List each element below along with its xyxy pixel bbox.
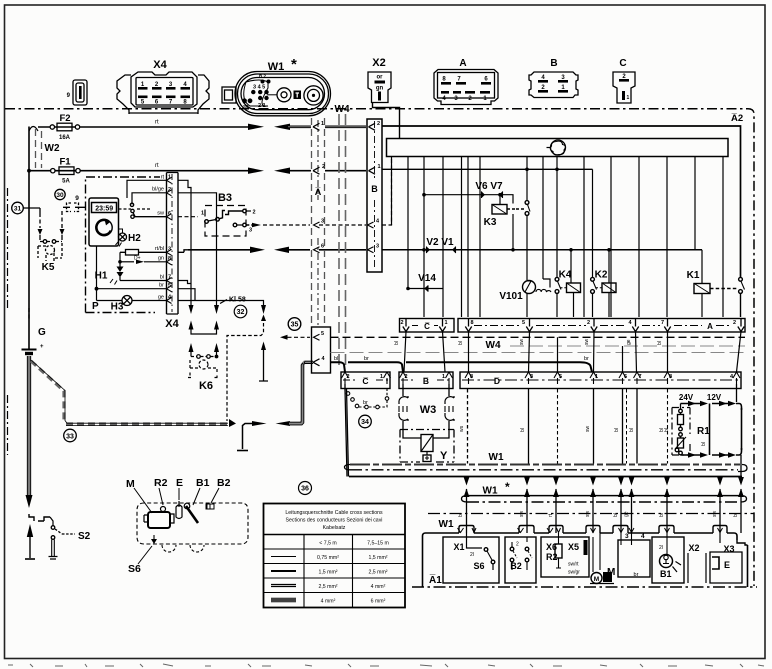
svg-text:7: 7 — [639, 374, 642, 380]
svg-text:16A: 16A — [59, 135, 71, 141]
svg-text:B2: B2 — [217, 477, 231, 489]
svg-text:C̅: C̅ — [362, 376, 368, 386]
svg-text:X2: X2 — [372, 57, 385, 69]
valve unit Y dash-dot box — [400, 430, 454, 463]
svg-text:7: 7 — [661, 320, 664, 326]
svg-text:P: P — [92, 301, 99, 312]
svg-text:R2: R2 — [546, 552, 558, 562]
svg-text:K4: K4 — [559, 270, 572, 281]
svg-text:ws: ws — [459, 425, 465, 432]
svg-text:R1: R1 — [697, 426, 710, 437]
svg-text:6: 6 — [168, 211, 171, 217]
W3 solenoid coils — [399, 384, 454, 432]
svg-text:Sections des conducteurs Sez: Sections des conducteurs Sezioni dei cav… — [286, 518, 383, 524]
svg-text:rt: rt — [155, 120, 159, 126]
svg-text:B: B — [550, 58, 557, 69]
svg-text:33: 33 — [66, 433, 74, 440]
svg-text:4: 4 — [641, 533, 645, 540]
svg-text:1: 1 — [445, 320, 448, 326]
svg-text:Kl 58: Kl 58 — [229, 297, 246, 304]
svg-text:D+: D+ — [134, 256, 141, 262]
connector B — [529, 58, 578, 98]
svg-text:32: 32 — [237, 309, 245, 316]
sub-box B1 — [652, 533, 684, 583]
wires X4 pins right side elbows — [178, 180, 191, 300]
svg-text:V14: V14 — [418, 273, 436, 284]
svg-text:8: 8 — [669, 374, 672, 380]
svg-text:bl: bl — [629, 428, 635, 432]
svg-text:H3: H3 — [111, 302, 124, 313]
svg-text:3: 3 — [249, 228, 252, 234]
svg-text:or: or — [377, 75, 384, 81]
svg-text:1,5 mm²: 1,5 mm² — [368, 555, 387, 561]
svg-text:2: 2 — [377, 121, 380, 127]
svg-text:R2: R2 — [154, 477, 168, 489]
S2 cluster — [25, 514, 91, 559]
STRIPS — [331, 319, 746, 428]
svg-text:4 mm²: 4 mm² — [371, 584, 386, 590]
svg-text:K5: K5 — [42, 262, 55, 273]
svg-text:B1: B1 — [196, 477, 210, 489]
connector C — [613, 58, 635, 103]
svg-text:bl: bl — [664, 428, 670, 432]
thick wire y362 with hooks — [331, 362, 593, 372]
svg-text:1: 1 — [442, 374, 445, 380]
svg-text:br: br — [159, 283, 164, 289]
svg-text:+: + — [40, 344, 44, 350]
connector 9 — [67, 80, 87, 105]
X3 E — [710, 544, 742, 583]
relay K1 — [687, 250, 745, 317]
svg-text:bl: bl — [614, 428, 620, 432]
circle 36 — [299, 482, 312, 495]
svg-text:3: 3 — [376, 244, 379, 250]
svg-text:36: 36 — [301, 486, 309, 493]
row1 connector strip — [400, 319, 746, 333]
wire labels under W1* — [458, 511, 739, 518]
svg-text:F2: F2 — [59, 113, 70, 124]
svg-text:bl: bl — [160, 275, 164, 281]
svg-text:W1: W1 — [489, 452, 504, 463]
svg-text:34: 34 — [361, 419, 369, 426]
svg-text:3 4 5: 3 4 5 — [253, 85, 265, 91]
svg-text:ge: ge — [626, 339, 632, 345]
relay K5 — [38, 229, 65, 273]
svg-text:bl: bl — [458, 513, 464, 517]
svg-text:C: C — [619, 58, 626, 69]
A strip (dashed boundary pair) — [312, 118, 331, 373]
svg-text:2: 2 — [405, 374, 408, 380]
svg-text:6 mm²: 6 mm² — [371, 599, 386, 605]
svg-text:3: 3 — [625, 533, 629, 540]
svg-text:sw: sw — [712, 511, 718, 518]
svg-text:2: 2 — [733, 320, 736, 326]
svg-text:W3: W3 — [420, 404, 437, 416]
svg-text:Leitungsquerschnitte Cable c: Leitungsquerschnitte Cable cross section… — [285, 510, 383, 516]
heater unit pictorial labels — [126, 477, 231, 575]
wire F2 line rt — [29, 127, 38, 132]
svg-text:A̅: A̅ — [315, 187, 322, 197]
svg-text:K6: K6 — [199, 380, 213, 392]
thermal switch V101 — [499, 281, 551, 318]
ground lead thick gray down — [27, 356, 31, 497]
svg-text:2l: 2l — [659, 545, 663, 551]
svg-text:K3: K3 — [484, 217, 497, 228]
clock switch contact sw — [119, 208, 132, 210]
cable cross-section table — [264, 504, 406, 608]
switch 34 dashed under C-bar — [345, 389, 389, 409]
svg-text:1,5 mm²: 1,5 mm² — [318, 570, 337, 576]
svg-text:Kabelsatz: Kabelsatz — [323, 525, 346, 531]
svg-text:3: 3 — [530, 374, 533, 380]
svg-text:*: * — [291, 56, 297, 73]
svg-text:5: 5 — [168, 283, 171, 289]
diodes V2 V1 — [426, 237, 455, 253]
svg-text:bl: bl — [520, 428, 526, 432]
svg-text:B̅: B̅ — [423, 376, 429, 386]
dashed return to 33 line — [227, 323, 264, 421]
svg-text:Y: Y — [440, 450, 448, 462]
svg-text:X4: X4 — [165, 318, 179, 330]
vertical drops from bus — [392, 157, 724, 318]
X4 strip pins (half arrows) + labels — [167, 177, 172, 303]
svg-text:6: 6 — [321, 244, 324, 250]
arrows kl58 columns — [189, 297, 267, 356]
svg-text:3: 3 — [321, 219, 324, 225]
svg-text:31: 31 — [14, 206, 22, 213]
svg-text:< 7,5 m: < 7,5 m — [319, 541, 336, 547]
svg-text:ge: ge — [158, 294, 164, 300]
module risers with up arrows — [467, 455, 742, 533]
clock unit P boundary — [86, 177, 161, 313]
svg-text:br: br — [364, 356, 369, 362]
svg-text:5: 5 — [559, 374, 562, 380]
svg-text:A: A — [707, 322, 713, 331]
svg-text:5A: 5A — [62, 179, 70, 185]
svg-text:7: 7 — [168, 275, 171, 281]
svg-text:sw: sw — [585, 426, 591, 433]
svg-text:8: 8 — [470, 374, 473, 380]
relay K4 — [555, 169, 580, 317]
svg-text:2l: 2l — [470, 552, 474, 558]
svg-text:F1: F1 — [59, 157, 71, 168]
svg-text:bl: bl — [657, 341, 663, 345]
svg-text:B1: B1 — [660, 569, 672, 579]
sub-box B2 — [505, 537, 536, 583]
svg-text:2: 2 — [401, 320, 404, 326]
circle 30 — [55, 189, 65, 199]
svg-text:A: A — [459, 58, 466, 69]
MIDDLE — [178, 104, 702, 451]
svg-text:D̅: D̅ — [494, 376, 500, 386]
svg-text:sw: sw — [585, 511, 591, 518]
svg-text:bl: bl — [394, 341, 400, 345]
short pin drop verticals through band — [404, 332, 741, 373]
svg-text:C̅: C̅ — [424, 322, 430, 331]
svg-text:7,5–15 m: 7,5–15 m — [367, 541, 389, 547]
svg-text:A̅2: A̅2 — [731, 113, 743, 124]
svg-text:bl: bl — [701, 442, 707, 446]
svg-text:gn: gn — [158, 256, 164, 262]
LED H1 — [119, 264, 121, 281]
svg-text:9: 9 — [75, 195, 79, 202]
K3 switch on 527 drop — [526, 169, 528, 200]
svg-text:2: 2 — [253, 210, 256, 216]
circle 33 — [64, 429, 77, 442]
motor M — [590, 533, 615, 584]
svg-text:V101: V101 — [499, 291, 523, 302]
svg-text:V2 V1: V2 V1 — [426, 237, 454, 248]
connector X4 — [117, 59, 209, 114]
fan symbol in bus — [551, 140, 566, 155]
PICTTABLE — [8, 477, 764, 667]
V6 V7 branch — [422, 181, 513, 204]
svg-text:6: 6 — [624, 374, 627, 380]
row3 B-bar strip — [399, 372, 453, 389]
connector W1 oval — [222, 56, 331, 116]
heater unit dashed outline — [137, 503, 248, 544]
svg-text:sw/rt: sw/rt — [568, 562, 579, 568]
svg-text:W4: W4 — [335, 104, 350, 115]
svg-text:rt/bl: rt/bl — [155, 246, 164, 252]
svg-text:B: B — [371, 184, 378, 194]
svg-text:gn: gn — [376, 86, 384, 92]
row3 D-bar strip long — [460, 372, 741, 389]
thick return wire to A pin4 — [276, 421, 291, 426]
svg-text:W1: W1 — [439, 519, 454, 530]
24V top arrows — [681, 403, 701, 405]
svg-text:sw: sw — [519, 339, 525, 346]
relay K2 — [591, 169, 616, 317]
PBOX — [86, 173, 180, 331]
circle 35 and dashed line — [288, 318, 301, 331]
wire F1 line rt — [27, 169, 31, 173]
svg-text:S6: S6 — [128, 563, 141, 575]
svg-text:2: 2 — [347, 374, 350, 380]
battery G — [28, 345, 30, 349]
svg-text:S6: S6 — [473, 561, 484, 571]
svg-text:4 mm²: 4 mm² — [321, 599, 336, 605]
bottom arrows — [681, 454, 701, 456]
svg-text:1: 1 — [380, 374, 383, 380]
svg-text:V6 V7: V6 V7 — [475, 181, 503, 192]
svg-text:S2: S2 — [78, 531, 91, 542]
svg-text:K2: K2 — [595, 270, 608, 281]
svg-text:2: 2 — [587, 320, 590, 326]
svg-text:G: G — [38, 327, 46, 338]
svg-text:bl: bl — [733, 513, 739, 517]
diode V14 — [406, 273, 443, 292]
row1 pin lugs — [403, 319, 744, 332]
svg-text:B 2: B 2 — [259, 74, 267, 79]
svg-text:M: M — [594, 576, 599, 583]
svg-text:W2: W2 — [45, 143, 60, 154]
wire y169 right section — [382, 168, 593, 170]
ground stub at 242 — [243, 424, 253, 450]
svg-text:0,75 mm²: 0,75 mm² — [317, 555, 339, 561]
ws dashed drop — [467, 389, 469, 464]
svg-text:X2: X2 — [688, 543, 699, 553]
sub-box X1 S6 — [443, 533, 499, 583]
svg-text:1: 1 — [168, 175, 171, 181]
svg-text:bl/ge: bl/ge — [152, 187, 164, 193]
12V vertical — [709, 404, 711, 456]
dashed wire B3 to A strip — [263, 224, 310, 226]
bus bar rect — [387, 139, 729, 157]
left bus vertical — [28, 127, 30, 346]
box A2 top/right — [382, 126, 741, 277]
wires clock top to X4 pins 1,2 — [127, 180, 166, 198]
resistor block R1 — [664, 384, 742, 458]
svg-text:bl: bl — [334, 356, 338, 362]
LOWERMID — [345, 384, 742, 477]
svg-text:A̅1: A̅1 — [429, 574, 442, 586]
leader lines — [134, 488, 219, 564]
svg-text:2: 2 — [322, 164, 325, 170]
wire y=250 long with break arrows — [188, 249, 234, 251]
svg-text:2: 2 — [516, 542, 519, 548]
route 33 dashed from G — [31, 361, 228, 424]
svg-text:8: 8 — [168, 256, 171, 262]
svg-text:bl: bl — [613, 513, 619, 517]
wheels dashed — [162, 545, 176, 552]
svg-text:24V: 24V — [679, 393, 694, 402]
BANDS — [345, 452, 755, 533]
left drop C-bar pin2 to W1 — [345, 384, 349, 477]
svg-text:X4: X4 — [153, 59, 167, 71]
wire y250 nodes — [422, 248, 426, 252]
svg-text:1: 1 — [201, 211, 204, 217]
svg-text:sw/gr: sw/gr — [568, 570, 580, 576]
svg-text:sw: sw — [584, 339, 590, 346]
svg-text:br: br — [634, 572, 639, 578]
svg-text:X5: X5 — [568, 542, 579, 552]
row3 C-bar strip — [341, 372, 391, 389]
motor body — [144, 501, 214, 544]
svg-text:E: E — [724, 560, 730, 570]
svg-text:M: M — [126, 478, 135, 490]
svg-text:35: 35 — [291, 322, 299, 329]
LEFTSIDE — [8, 113, 367, 559]
clock unit body — [89, 198, 119, 246]
svg-text:1: 1 — [321, 121, 324, 127]
svg-text:K1: K1 — [687, 270, 700, 281]
B strip — [367, 119, 382, 272]
W4 cable verticals — [338, 114, 340, 367]
lamp H2 — [119, 233, 127, 241]
X2 tail wire — [373, 103, 400, 139]
svg-text:23:59: 23:59 — [95, 205, 113, 212]
lamp H3 — [97, 300, 123, 302]
bottom border tick marks — [8, 664, 764, 667]
svg-text:W4: W4 — [486, 340, 501, 351]
svg-text:2: 2 — [168, 187, 171, 193]
circle 31 — [12, 202, 24, 214]
svg-text:sw: sw — [519, 511, 525, 518]
svg-text:B3: B3 — [218, 192, 232, 204]
svg-text:bl: bl — [458, 341, 464, 345]
svg-text:12V: 12V — [707, 393, 722, 402]
svg-text:3: 3 — [168, 247, 171, 253]
relay K6 — [188, 355, 220, 392]
node and gn wire with arrow to pin 8 — [118, 260, 122, 264]
svg-text:rt: rt — [155, 163, 159, 169]
svg-text:rt: rt — [161, 175, 165, 181]
svg-text:H2: H2 — [128, 233, 141, 244]
switch B3 — [178, 192, 261, 236]
sub-box br — [618, 533, 650, 578]
svg-text:2,5 mm²: 2,5 mm² — [368, 570, 387, 576]
svg-text:sw: sw — [157, 211, 164, 217]
connector X2 — [368, 57, 391, 103]
left border dashdot fragments — [7, 188, 9, 310]
relay K3 — [484, 193, 516, 255]
A1MODULE — [412, 519, 757, 587]
svg-text:bl: bl — [659, 513, 665, 517]
svg-text:1: 1 — [378, 164, 381, 170]
X2 area — [688, 533, 720, 583]
dash-dot line above A1 — [428, 513, 754, 515]
svg-text:X1: X1 — [453, 542, 464, 552]
svg-text:br: br — [584, 356, 589, 362]
solid arrow up column — [259, 348, 268, 381]
boundary A2 dash-dot — [5, 109, 754, 586]
svg-text:E: E — [176, 477, 183, 489]
resistor on rt/bl wire — [120, 251, 166, 253]
svg-text:5: 5 — [321, 331, 324, 337]
svg-text:2,5 mm²: 2,5 mm² — [318, 584, 337, 590]
svg-text:br: br — [363, 400, 368, 406]
svg-text:1: 1 — [595, 374, 598, 380]
svg-text:1: 1 — [627, 95, 630, 101]
svg-text:8: 8 — [471, 320, 474, 326]
X4 strip vertical — [165, 173, 179, 331]
RIGHTTOP — [5, 103, 754, 587]
br wire node — [96, 246, 98, 301]
svg-text:ge: ge — [624, 511, 630, 517]
connector A — [434, 58, 498, 105]
TOPCONNECTORS — [67, 56, 635, 116]
svg-text:*: * — [505, 480, 510, 494]
svg-text:5: 5 — [522, 320, 525, 326]
svg-text:30: 30 — [56, 192, 64, 199]
sub-box X6 R2 X5 — [541, 533, 589, 577]
drops row3 to W1 — [529, 389, 668, 464]
